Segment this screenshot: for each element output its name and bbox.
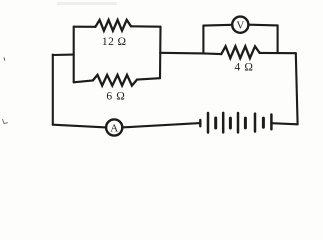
battery cell 3 short plate — [244, 118, 247, 128]
svg-text:6 Ω: 6 Ω — [106, 90, 125, 102]
battery cell 3 long plate — [237, 113, 240, 132]
voltmeter loop left vertical — [202, 26, 204, 54]
battery terminal tick (left) — [199, 120, 201, 126]
wire: left vertical side of outer loop — [52, 55, 54, 125]
svg-text:4 Ω: 4 Ω — [235, 62, 254, 74]
wire: bottom-left segment to ammeter — [53, 125, 106, 128]
ammeter A — [106, 119, 122, 135]
wire: left branch lead from node to parallel box — [53, 54, 74, 57]
voltmeter V circle — [232, 17, 248, 33]
scan artifact: small scribble lower-left — [3, 119, 8, 124]
battery cell 4 short plate — [262, 118, 265, 127]
battery cell 2 long plate — [222, 113, 225, 132]
voltmeter loop right vertical — [277, 25, 279, 53]
resistor R1 zigzag (12 ohm) — [95, 20, 131, 31]
wire: box top edge left lead — [74, 26, 96, 28]
resistor R3 zigzag (4 ohm) — [221, 46, 259, 58]
wire: 4-ohm resistor right lead to corner — [260, 52, 296, 54]
parallel box left edge — [73, 27, 75, 83]
wire: box bottom edge left lead — [74, 80, 93, 82]
svg-text:12 Ω: 12 Ω — [102, 36, 127, 48]
svg-text:A: A — [110, 122, 118, 134]
battery cell 5 long plate (right terminal) — [270, 115, 273, 130]
voltmeter loop top-left wire — [203, 24, 232, 27]
wire: right vertical side of outer loop — [296, 53, 298, 124]
parallel box right edge — [159, 27, 162, 78]
scan artifact: faint smudge at top edge — [57, 2, 117, 5]
scan artifact: tiny tick near left edge — [3, 58, 6, 61]
resistor R2 zigzag (6 ohm) — [93, 75, 137, 86]
voltmeter loop top-right wire — [248, 24, 277, 27]
battery cell 2 short plate — [229, 118, 232, 128]
wire: battery to bottom-right corner — [271, 123, 297, 124]
svg-text:V: V — [236, 20, 244, 32]
wire: box right edge to 4-ohm resistor left lead — [160, 53, 221, 54]
wire: ammeter to battery — [122, 123, 200, 127]
battery cell 1 short plate — [214, 118, 217, 128]
wire: box bottom edge right lead — [137, 78, 160, 79]
battery cell 4 long plate — [254, 114, 257, 132]
wire: box top edge right lead — [131, 25, 161, 28]
battery cell 1 long plate — [207, 113, 210, 133]
